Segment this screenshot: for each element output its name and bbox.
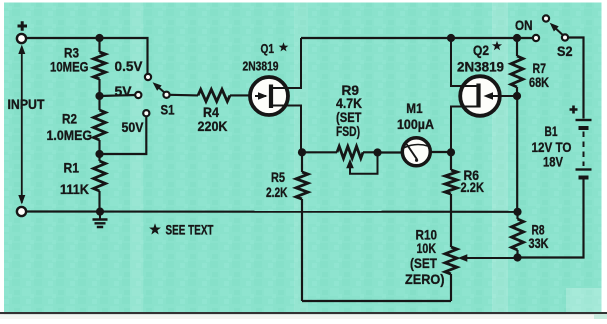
wire: Q2 gate down to ground rail [516, 96, 518, 212]
svg-text:100µA: 100µA [397, 117, 434, 132]
battery B1 [532, 106, 592, 178]
svg-text:R7: R7 [533, 61, 547, 76]
wire: R9 to meter M1 [378, 151, 404, 153]
resistor R7 68K [511, 38, 549, 96]
wire: S2 to battery + [568, 38, 584, 119]
svg-text:1.0MEG: 1.0MEG [47, 128, 93, 143]
node: 50V tap [95, 150, 103, 158]
input terminal + [17, 21, 27, 43]
resistor R8 33K [512, 212, 549, 258]
wire: 50V tap riser to S1 contact [100, 117, 147, 155]
meter M1 100uA [397, 101, 434, 166]
node: Q2 drain on +V rail [447, 34, 455, 42]
svg-text:SEE TEXT: SEE TEXT [166, 223, 215, 238]
resistor R4 220K [170, 89, 230, 134]
input terminal - [17, 207, 26, 216]
svg-text:R1: R1 [64, 161, 80, 176]
svg-text:33K: 33K [529, 236, 549, 251]
svg-text:50V: 50V [122, 120, 144, 135]
ground symbol [93, 212, 108, 227]
svg-text:0.5V: 0.5V [115, 59, 143, 74]
svg-text:10MEG: 10MEG [50, 60, 89, 75]
svg-text:2N3819: 2N3819 [457, 60, 504, 75]
svg-text:M1: M1 [406, 101, 423, 116]
svg-text:R5: R5 [271, 170, 285, 185]
INPUT measurement arrows and label [8, 45, 46, 205]
node: Q2 gate / R7 bottom [513, 92, 521, 100]
node: R9 right / wiper junction [373, 148, 381, 156]
svg-text:Q2: Q2 [473, 43, 489, 58]
node: Q2 source junction [447, 148, 455, 156]
resistor R3 10MEG [50, 38, 106, 96]
transistor Q1 2N3819 JFET [243, 38, 302, 152]
wire: top input rail from + terminal to 0.5V contact [24, 38, 148, 73]
svg-text:(SET: (SET [410, 256, 438, 271]
wire: bottom loop R5 to R10 [302, 300, 451, 302]
svg-text:2.2K: 2.2K [266, 185, 288, 200]
svg-text:R2: R2 [62, 112, 77, 127]
wire: M1 to Q2 source node [430, 151, 451, 153]
svg-text:2.2K: 2.2K [461, 180, 485, 195]
svg-text:S2: S2 [557, 44, 573, 59]
wire: R4 to Q1 gate [230, 94, 257, 96]
node: R3 top / input junction [95, 34, 103, 42]
potentiometer R10 10K SET ZERO [405, 221, 518, 301]
note: * SEE TEXT [149, 223, 214, 238]
svg-text:R4: R4 [203, 105, 219, 120]
resistor R2 1.0MEG [47, 96, 106, 154]
node: R7 top on +V rail [513, 34, 521, 42]
svg-text:S1: S1 [161, 103, 175, 118]
svg-text:2N3819: 2N3819 [243, 60, 279, 74]
wire: 5V tap to S1 contact [100, 95, 136, 96]
node: 5V tap [95, 92, 103, 100]
svg-text:5V: 5V [115, 84, 132, 99]
svg-text:(SET: (SET [336, 110, 362, 125]
switch S1 with range contacts [115, 59, 175, 135]
transistor Q2 2N3819 JFET [451, 38, 517, 152]
svg-text:68K: 68K [529, 75, 549, 90]
svg-text:ON: ON [515, 18, 533, 33]
svg-text:B1: B1 [545, 124, 558, 139]
resistor R1 111K [60, 154, 106, 212]
node: Q1 source junction [298, 148, 306, 156]
svg-text:18V: 18V [543, 155, 563, 170]
svg-text:ZERO): ZERO) [405, 272, 445, 287]
node: R8 bottom / battery - / R10 wiper [513, 253, 521, 261]
switch S2 ON [515, 15, 573, 59]
potentiometer R9 4.7K SET FSD [302, 83, 378, 174]
wire: ground rail (- terminal to R8 top) [27, 210, 518, 212]
node: ground junction [96, 208, 104, 216]
svg-text:220K: 220K [198, 119, 228, 134]
svg-text:R3: R3 [64, 46, 79, 61]
wire: battery - down to R8 bottom node [518, 180, 584, 258]
svg-text:10K: 10K [417, 241, 437, 256]
svg-text:111K: 111K [60, 182, 89, 197]
svg-text:Q1: Q1 [261, 42, 275, 56]
resistor R5 2.2K [266, 152, 308, 301]
svg-text:4.7K: 4.7K [336, 96, 362, 111]
resistor R6 2.2K [445, 152, 484, 221]
svg-text:12V TO: 12V TO [532, 140, 572, 155]
svg-text:FSD): FSD) [336, 124, 360, 139]
node: R8 top / ground rail end [513, 208, 521, 216]
wire: +V top rail [301, 37, 533, 39]
svg-text:INPUT: INPUT [8, 97, 46, 112]
